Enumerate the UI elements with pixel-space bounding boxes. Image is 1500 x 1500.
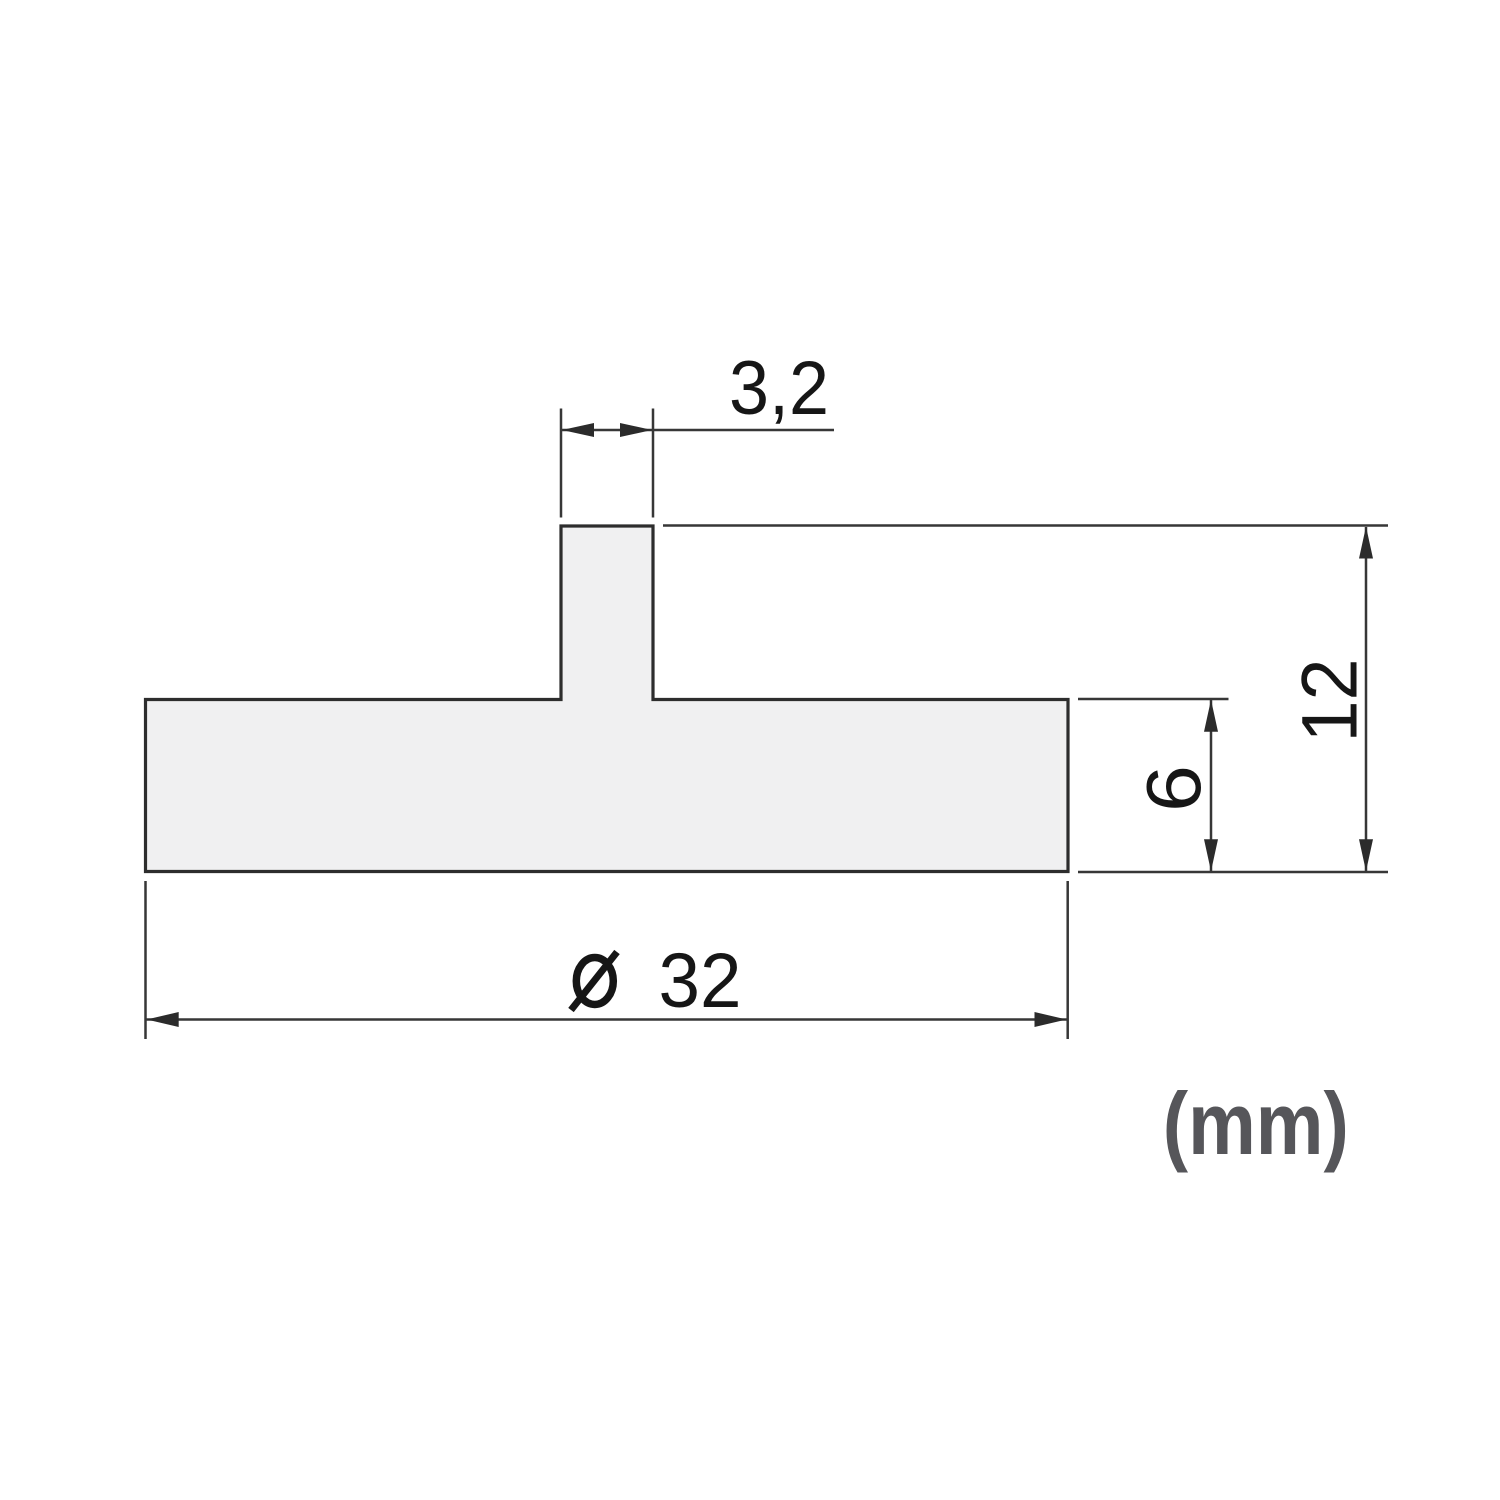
dimension 12 : value label (rotated) — [1285, 659, 1374, 743]
dimension 3,2 : extension line right — [652, 409, 655, 518]
dimension 6 : top extension line — [1078, 698, 1229, 701]
dimension 6 : dimension line — [1210, 700, 1213, 871]
dimension 3,2 : extension line left — [560, 409, 563, 518]
dimension 12 : top extension line — [663, 524, 1388, 527]
svg-text:12: 12 — [1285, 659, 1374, 743]
dimension 6 : bottom arrowhead — [1204, 839, 1218, 871]
dimension 6 : top arrowhead — [1204, 700, 1218, 732]
dimension 12 : dimension line — [1365, 527, 1368, 871]
dimension 3,2 : value label — [729, 346, 829, 431]
svg-text:32: 32 — [659, 938, 742, 1024]
dimension diameter 32 : left arrowhead — [147, 1012, 179, 1027]
svg-text:3,2: 3,2 — [729, 346, 829, 431]
dimension diameter 32 : left extension line — [144, 881, 147, 1039]
dimension 12 : bottom arrowhead — [1359, 839, 1373, 871]
dimension 3,2 : left arrowhead — [562, 423, 594, 437]
dimension diameter 32 : right arrowhead — [1035, 1012, 1067, 1027]
dimension 6 : value label (rotated) — [1132, 765, 1218, 812]
dimension 3,2 : dimension/leader line — [561, 429, 834, 432]
units note (mm) — [1163, 1074, 1349, 1173]
profile cross-section (T-shaped body) — [146, 526, 1069, 872]
svg-text:6: 6 — [1132, 765, 1218, 812]
dimension diameter 32 : value label — [659, 938, 742, 1024]
dimension 3,2 : right arrowhead — [620, 423, 652, 437]
dimension 12 : bottom extension line — [1078, 871, 1388, 874]
svg-text:(mm): (mm) — [1163, 1074, 1349, 1173]
dimension 12 : top arrowhead — [1359, 527, 1373, 559]
dimension diameter 32 : diameter symbol — [571, 952, 617, 1010]
dimension diameter 32 : dimension line — [146, 1018, 1067, 1021]
dimension diameter 32 : right extension line — [1066, 881, 1069, 1039]
